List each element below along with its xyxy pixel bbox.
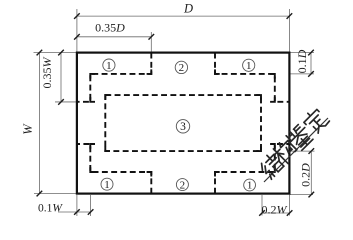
dimension line 0.2W [262, 212, 290, 214]
svg-text:1: 1 [104, 179, 110, 191]
svg-text:2: 2 [180, 179, 186, 191]
svg-text:0.2W: 0.2W [262, 202, 288, 216]
tick W bottom [37, 191, 43, 197]
tick W top [37, 50, 43, 56]
dashed zone boundary top-left corner [77, 53, 151, 102]
dimension line 0.1D [310, 53, 312, 74]
svg-text:W: W [21, 123, 35, 135]
extension line top edge extended left [34, 52, 77, 54]
tick 0.35W bottom [58, 99, 64, 105]
extension line 0.35D right end [150, 32, 152, 53]
dimension line 0.2D [310, 151, 312, 195]
extension line 0.1D bottom right [289, 73, 314, 75]
svg-text:D: D [183, 1, 193, 15]
watermark character ding [301, 106, 329, 134]
extension line left of D [76, 9, 78, 53]
tick 0.1W left [74, 209, 80, 215]
extension line 0.1W right [90, 195, 92, 216]
svg-text:0.2D: 0.2D [298, 163, 312, 187]
dimension line 0.35W [60, 53, 62, 102]
tick 0.2D top [309, 148, 315, 154]
tick 0.1D top [308, 50, 314, 56]
inner dashed boundary zone 3 [105, 95, 261, 151]
dashed zone boundary bottom-right corner [215, 144, 289, 194]
svg-text:3: 3 [180, 121, 186, 133]
label zone 3 center [176, 120, 189, 134]
label zone 1 top-right [243, 59, 255, 72]
extension line top edge extended right [289, 52, 314, 54]
tick 0.1D bottom [308, 71, 314, 77]
watermark character gou [270, 138, 299, 167]
tick D right [287, 13, 293, 19]
tick D left [74, 13, 80, 19]
dimension line D [77, 15, 290, 17]
tick 0.35W top [58, 50, 64, 56]
watermark underline [264, 118, 328, 182]
extension line 0.35W bottom [55, 101, 77, 103]
extension line 0.2W right [289, 195, 291, 216]
svg-text:0.1D: 0.1D [295, 49, 309, 73]
extension lines (thin gray) [34, 9, 315, 216]
extension line bottom edge extended right [289, 194, 313, 196]
dimension line W [38, 53, 40, 194]
svg-text:0.35D: 0.35D [95, 21, 125, 35]
tick 0.35D right [149, 34, 155, 40]
svg-text:1: 1 [106, 60, 112, 72]
tick 0.2W right [287, 210, 293, 216]
extension line 0.2W left [261, 195, 263, 216]
svg-text:0.1W: 0.1W [38, 203, 63, 215]
dashed zone boundary bottom-left corner [77, 144, 151, 194]
tick 0.2W left [259, 210, 265, 216]
svg-text:1: 1 [246, 60, 252, 72]
extension line bottom edge extended left [34, 193, 77, 195]
svg-text:1: 1 [247, 180, 253, 192]
watermark character jian [285, 122, 315, 152]
extension line right of D [288, 9, 290, 53]
dimension line 0.1W [58, 211, 91, 213]
label zone 1 top-left [103, 59, 115, 72]
dashed zone boundary top-right corner [215, 53, 289, 102]
label zone 1 bottom-right [244, 179, 256, 192]
corner dashes of dashed boundaries [90, 69, 274, 176]
svg-text:0.35W: 0.35W [40, 57, 54, 89]
tick 0.2D bottom [309, 192, 315, 198]
tick 0.1W right [88, 209, 94, 215]
tick 0.35D left [74, 34, 80, 40]
dimension line 0.35D [77, 36, 151, 38]
svg-text:2: 2 [179, 62, 185, 74]
label zone 2 top [175, 61, 187, 74]
label zone 1 bottom-left [101, 178, 113, 191]
dimension lines [39, 16, 311, 213]
label zone 2 bottom [176, 179, 188, 192]
extension line 0.1W left [76, 195, 78, 216]
outer building outline [77, 53, 290, 194]
dimension tick marks (45 degree) [37, 13, 315, 216]
watermark character jie [257, 151, 285, 179]
extension line 0.2D top right [291, 150, 315, 152]
